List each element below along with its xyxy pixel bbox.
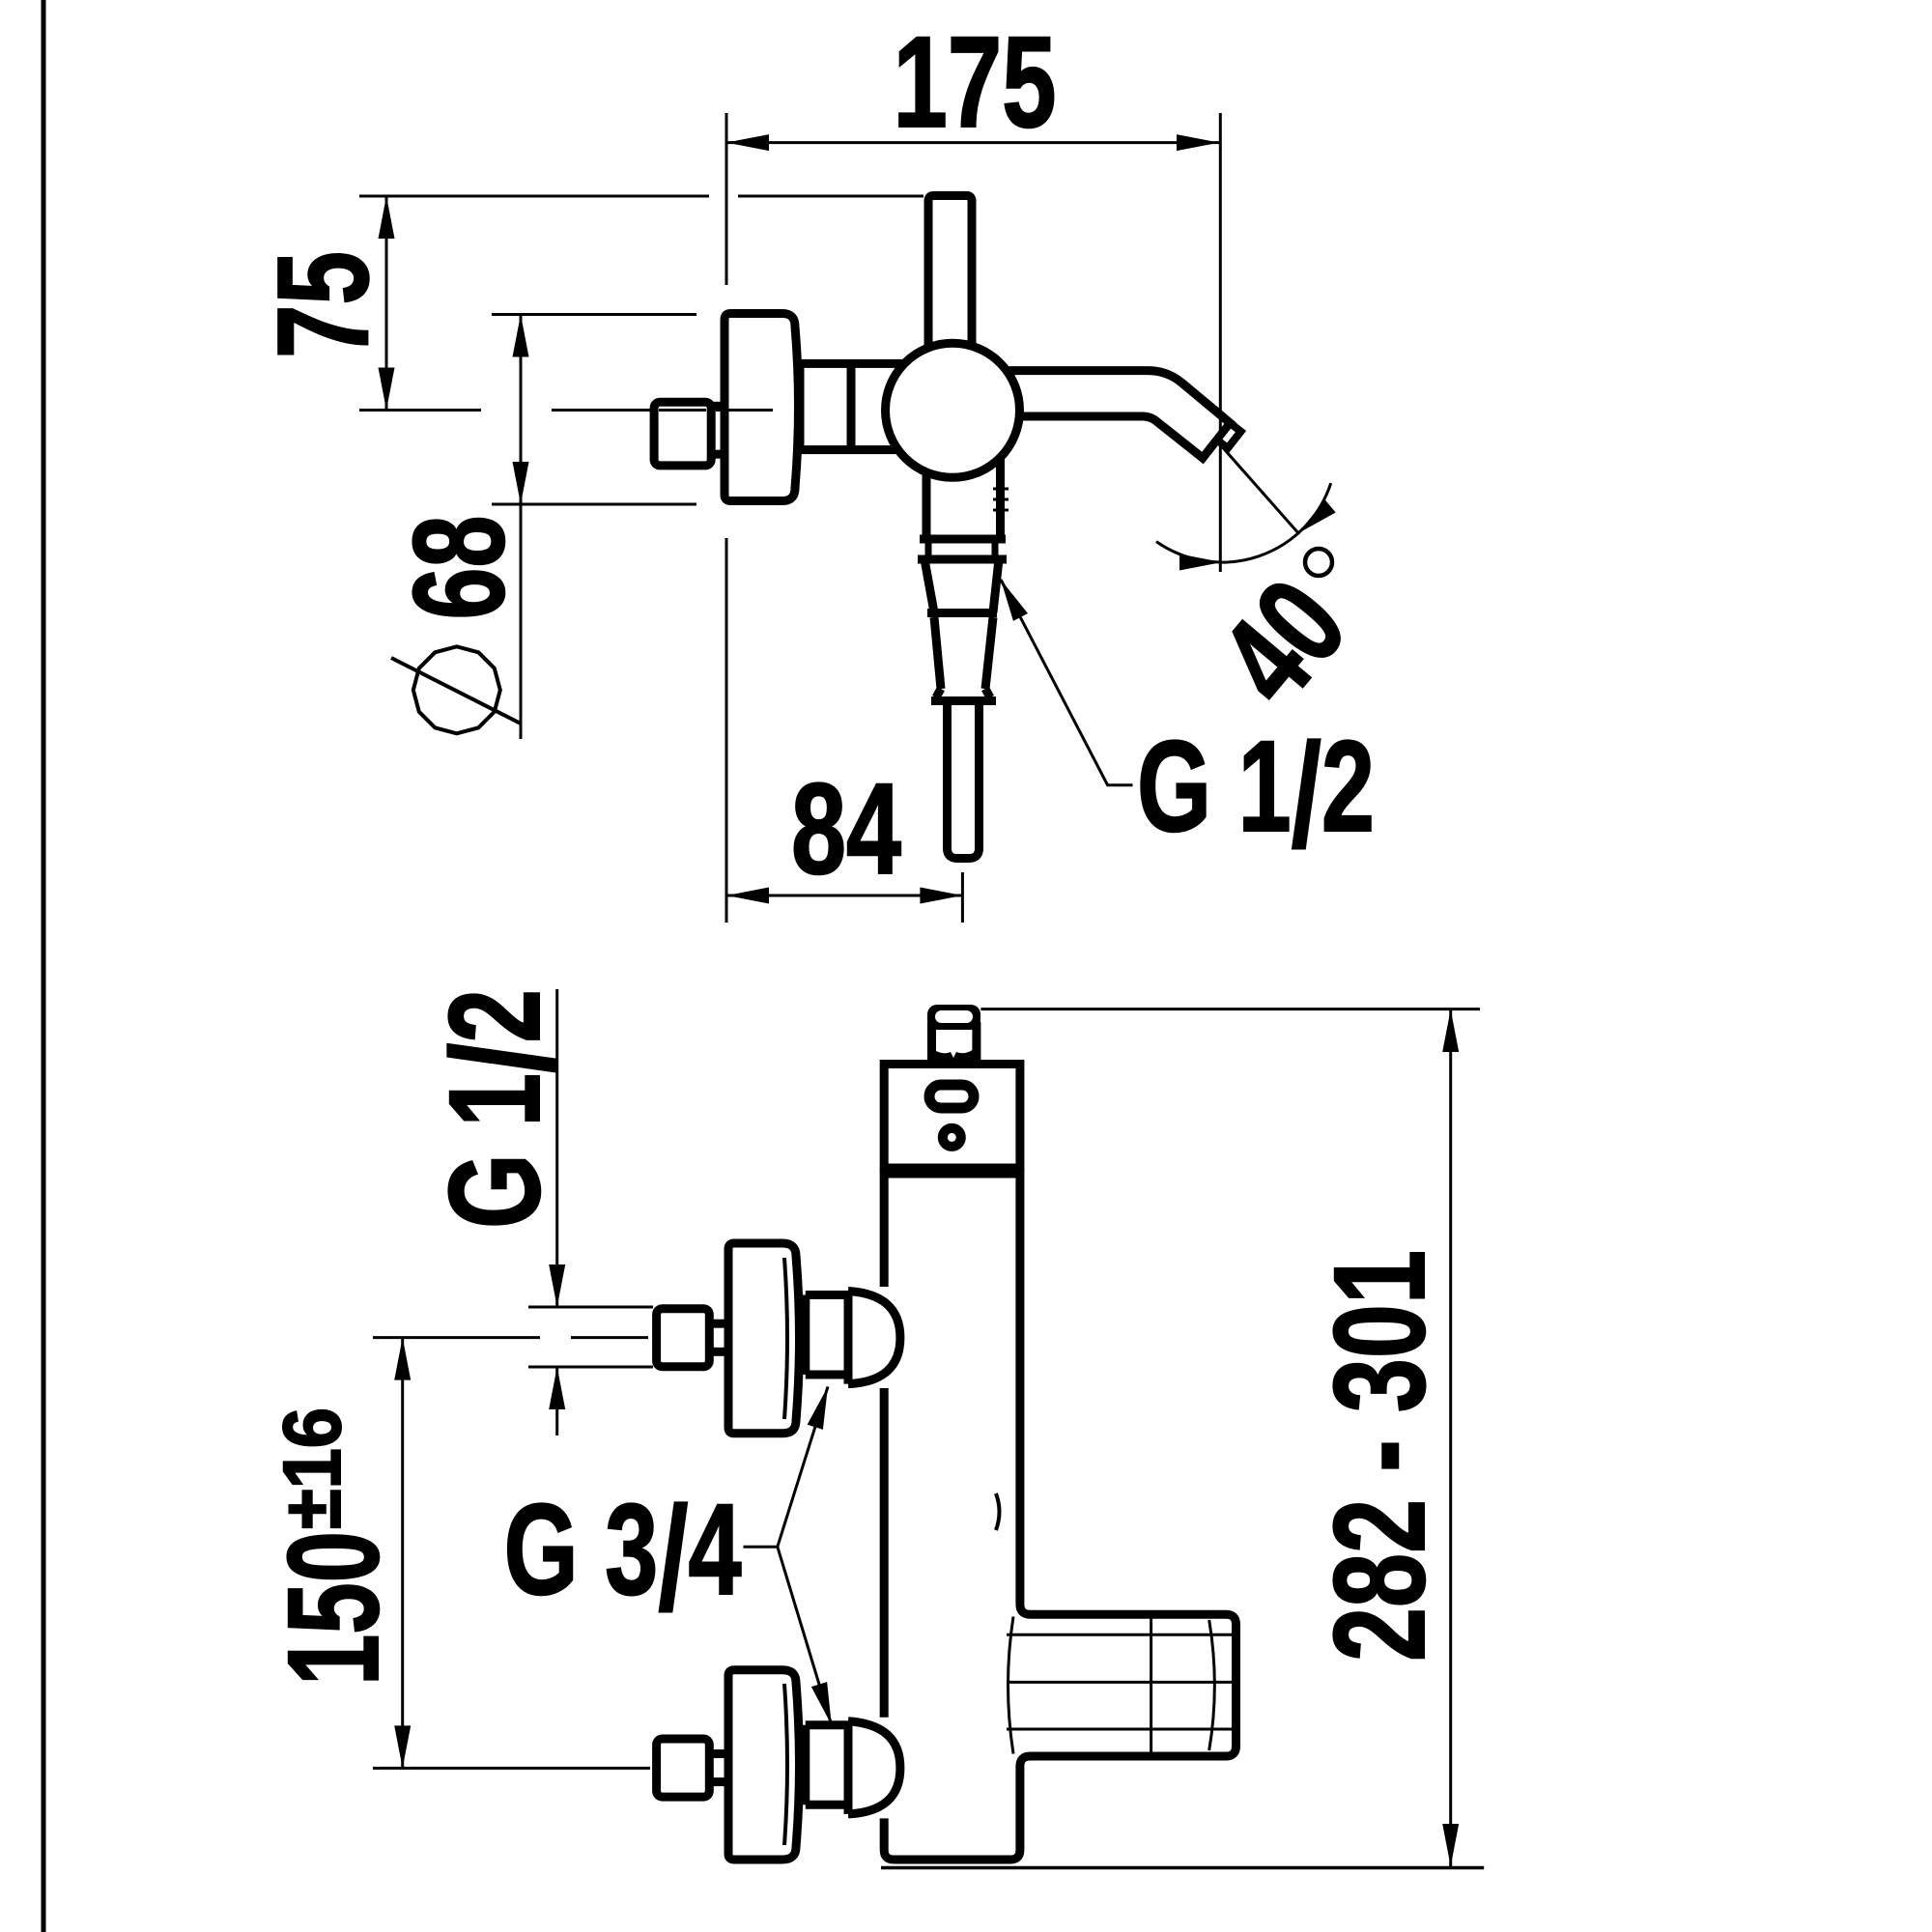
svg-text:84: 84 <box>791 757 901 901</box>
svg-text:±16: ±16 <box>267 1407 357 1529</box>
svg-text:G 1/2: G 1/2 <box>422 989 586 1229</box>
svg-text:G 1/2: G 1/2 <box>1137 714 1375 878</box>
svg-text:68: 68 <box>387 516 531 620</box>
svg-text:150: 150 <box>262 1531 406 1686</box>
svg-text:G 3/4: G 3/4 <box>504 1477 742 1641</box>
svg-text:75: 75 <box>251 251 395 358</box>
svg-text:175: 175 <box>894 11 1057 155</box>
svg-text:282 - 301: 282 - 301 <box>1308 1250 1452 1662</box>
